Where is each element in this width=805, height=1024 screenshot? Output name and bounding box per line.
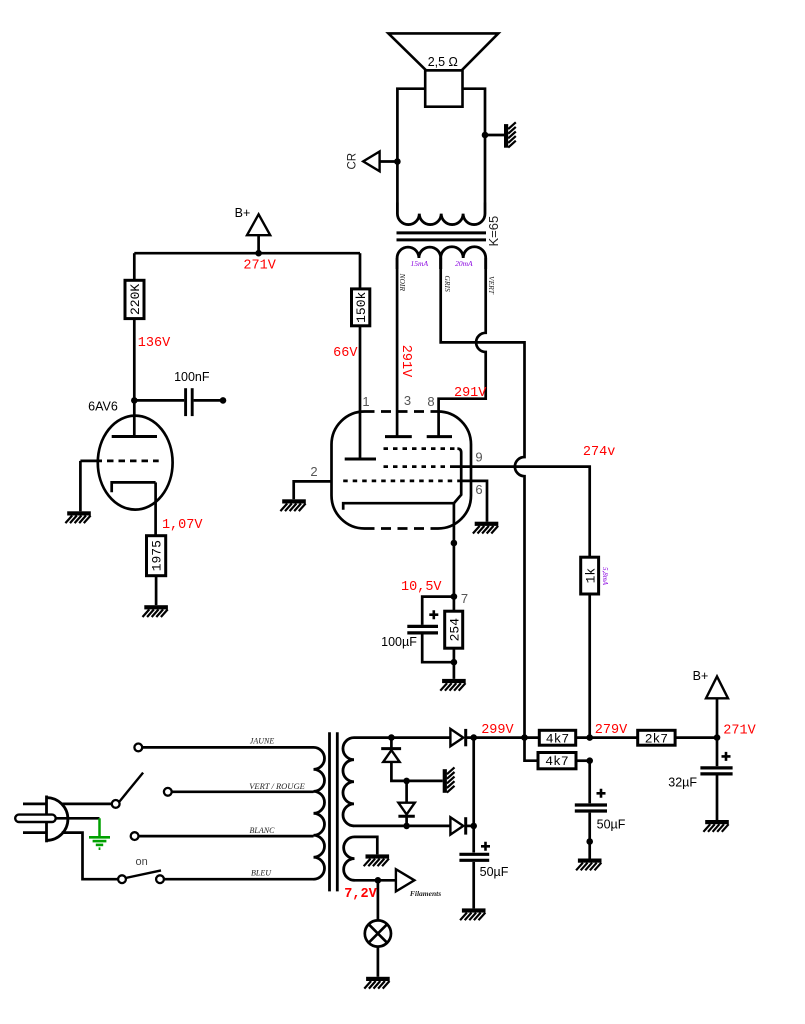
wire VERT to pin 8, hop over GRIS run (439, 258, 486, 437)
wire D3 to mid node (391, 762, 406, 781)
ground lamp (364, 977, 389, 989)
6AV6 grid (80, 460, 102, 463)
ground filament CT (364, 854, 389, 866)
svg-text:5,8mA: 5,8mA (601, 567, 609, 586)
diode D4 (clamp down) (405, 781, 408, 803)
svg-text:VERT / ROUGE: VERT / ROUGE (249, 781, 305, 791)
wire pin 2 to ground (294, 481, 332, 499)
svg-text:3: 3 (404, 393, 411, 408)
wire grid to ground (79, 461, 82, 511)
wire plug neutral down (62, 833, 118, 880)
capacitor C3 50uF (reservoir) (459, 854, 489, 860)
svg-text:291V: 291V (454, 386, 487, 401)
node C4 ground lead (586, 838, 593, 845)
wire to ground (453, 662, 456, 679)
grid row 3 (control grid) (343, 480, 458, 483)
wire pin 9 (screen) to 1k (453, 467, 590, 558)
svg-text:Filaments: Filaments (410, 889, 441, 898)
svg-text:1,07V: 1,07V (162, 518, 203, 533)
capacitor C2 100uF branch (422, 597, 454, 625)
wire 100nF output (194, 399, 223, 402)
wires R4 (453, 597, 456, 612)
grid row 1 (suppressor) (384, 447, 458, 450)
wire D1 out (466, 736, 540, 739)
node 271V B+ (714, 734, 721, 741)
ground 6AV6 cathode (143, 605, 168, 617)
transformer T1 core (328, 732, 331, 891)
wire mid node to chassis (407, 780, 443, 783)
transformer T1 HT secondary (343, 738, 354, 826)
ground pin 6 (473, 522, 498, 534)
node B+ rail (255, 250, 262, 257)
transformer T2 secondary winding (speaker side) (397, 203, 485, 225)
power flag B+ top (247, 214, 270, 235)
plus sign C4 (597, 789, 606, 798)
svg-text:K=65: K=65 (486, 216, 501, 247)
svg-text:8: 8 (427, 394, 434, 409)
wire D2 out (466, 825, 474, 828)
svg-text:6: 6 (475, 482, 482, 497)
svg-text:BLANC: BLANC (250, 826, 276, 835)
connector Filaments arrow (396, 869, 415, 891)
ground C3 (460, 908, 485, 920)
resistor R4 254 (445, 611, 463, 648)
resistor R2 150k (352, 289, 370, 326)
svg-text:1: 1 (362, 394, 369, 409)
svg-text:2: 2 (310, 464, 317, 479)
speaker LS1 (388, 33, 498, 106)
node GRIS join (521, 734, 528, 741)
wire C3 to ground (472, 862, 475, 909)
resistor R3 1975 (147, 536, 166, 576)
wire R7 left connector (525, 738, 539, 761)
wire to ground (485, 134, 504, 137)
node 299V (470, 734, 477, 741)
selector contact JAUNE (134, 744, 142, 752)
wire filament top to chassis (355, 837, 378, 855)
transformer T1 primary winding (314, 747, 325, 879)
node below tube (451, 540, 458, 547)
wire rectifier bus (472, 738, 475, 853)
node D3 top (388, 734, 395, 741)
wire BLEU (164, 878, 313, 881)
svg-text:291V: 291V (398, 345, 413, 378)
svg-text:100µF: 100µF (381, 635, 417, 649)
wire to 100nF (134, 399, 184, 402)
node D4 bottom (403, 823, 410, 830)
svg-text:2k7: 2k7 (645, 731, 668, 746)
svg-text:136V: 136V (138, 336, 171, 351)
wire R6 right (576, 736, 638, 739)
wire speaker left lead (397, 89, 425, 203)
wire 2k7 to B+ node (675, 736, 717, 739)
svg-text:4k7: 4k7 (545, 754, 568, 769)
wire rail to 220K (133, 253, 136, 280)
wire HT bottom (354, 825, 450, 828)
svg-text:1975: 1975 (150, 540, 165, 571)
node R7 right (586, 757, 593, 764)
svg-text:9: 9 (475, 450, 482, 465)
resistor R1 220K (125, 280, 144, 318)
wire HT top (354, 736, 450, 739)
wire 150k to pin 1 (359, 326, 362, 459)
wire BLANC (139, 835, 314, 838)
plus sign C2 (429, 610, 438, 619)
6AV6 plate bar (112, 435, 157, 438)
tube U2 output pentode envelope (332, 412, 365, 529)
resistor R8 2k7 (638, 730, 675, 746)
wire rail to 150k (359, 253, 362, 289)
selector contact BLANC (131, 832, 139, 840)
svg-text:JAUNE: JAUNE (250, 737, 275, 746)
node 100nF output (220, 397, 227, 404)
capacitor C1 100nF (186, 388, 193, 416)
node speaker right to ground (482, 132, 489, 139)
svg-text:271V: 271V (243, 258, 276, 273)
wire pin 6 to ground (458, 481, 487, 522)
plus sign C3 (481, 842, 490, 851)
suppressor tie to cathode (454, 449, 461, 504)
switch S2 on/off (118, 875, 126, 883)
svg-text:CR: CR (347, 153, 359, 170)
wire R3 to ground (155, 576, 158, 606)
wire earth pin (56, 817, 100, 820)
svg-text:7,2V: 7,2V (344, 887, 377, 902)
mains plug P1 (15, 796, 68, 843)
power flag B+ bottom (706, 676, 728, 698)
capacitor C5 32uF (716, 738, 719, 767)
svg-text:10,5V: 10,5V (401, 580, 442, 595)
wire lamp to ground (377, 947, 380, 977)
grid row 2 (screen) (384, 465, 454, 468)
ground 6AV6 grid (65, 511, 90, 523)
svg-text:20mA: 20mA (455, 259, 473, 268)
transformer T2 core (397, 231, 487, 234)
wire 1k down to 279V node (588, 594, 591, 738)
wire CR tap (380, 160, 398, 163)
switch S2 lever (126, 870, 161, 878)
svg-text:32µF: 32µF (668, 776, 697, 790)
diode D1 rectifier top (450, 729, 465, 746)
node 7 (451, 593, 458, 600)
node clamp mid (403, 778, 410, 785)
svg-text:7: 7 (461, 591, 468, 606)
svg-text:271V: 271V (723, 724, 756, 739)
wire cathode to R3 (154, 482, 157, 535)
wire R7 right connector (576, 759, 590, 762)
diode D2 rectifier bottom (450, 817, 465, 834)
svg-text:NOIR: NOIR (398, 273, 407, 292)
svg-text:50µF: 50µF (480, 865, 509, 879)
svg-text:on: on (135, 856, 147, 868)
wire B+ rail (134, 252, 360, 255)
capacitor C4 50uF (588, 761, 591, 804)
ground cathode network (440, 679, 465, 691)
ground C5 (703, 820, 728, 832)
resistor R5 1k (581, 557, 599, 594)
svg-text:220K: 220K (128, 284, 143, 315)
svg-text:15mA: 15mA (411, 259, 429, 268)
wire NOIR to pin 3 (396, 258, 399, 437)
node 279V (586, 734, 593, 741)
connector CR arrow (363, 152, 379, 172)
node cathode network bottom (451, 659, 458, 666)
svg-text:100nF: 100nF (174, 370, 210, 384)
svg-text:B+: B+ (693, 669, 709, 683)
wire B+ drop (257, 235, 260, 253)
svg-text:299V: 299V (481, 723, 514, 738)
wire plug live to selector (62, 803, 112, 806)
svg-text:50µF: 50µF (597, 818, 626, 832)
earth ground symbol (green) (89, 818, 110, 848)
svg-text:B+: B+ (235, 206, 251, 220)
svg-text:VERT: VERT (487, 276, 496, 295)
wire GRIS center tap to supply, with hop (441, 258, 525, 738)
resistor R6 4k7 (539, 730, 575, 746)
cathode bar (343, 503, 454, 510)
6AV6 cathode (112, 482, 156, 492)
switch S1 selector pole (112, 800, 120, 808)
svg-text:GRIS: GRIS (443, 276, 452, 292)
selector contact VERT/ROUGE (164, 788, 172, 796)
svg-text:279V: 279V (595, 723, 628, 738)
svg-text:BLEU: BLEU (251, 869, 272, 878)
pin 8 bar (427, 435, 452, 438)
ground clamp mid (443, 767, 455, 792)
wire 220K to plate (133, 319, 136, 401)
svg-text:6AV6: 6AV6 (88, 400, 118, 414)
node plate 6AV6 (131, 397, 138, 404)
ground C4 (576, 859, 601, 871)
node D2 out (470, 823, 477, 830)
tube U1 6AV6 envelope (98, 416, 173, 510)
pin 3 bar (385, 435, 412, 438)
wire VERT/ROUGE (172, 790, 314, 793)
svg-text:2,5 Ω: 2,5 Ω (428, 55, 458, 69)
node filament (375, 877, 382, 884)
wire 6AV6 plate (133, 400, 136, 436)
svg-text:4k7: 4k7 (546, 731, 569, 746)
resistor R7 4k7 (538, 753, 576, 770)
transformer T2 primary section 1 (NOIR-GRIS) (397, 247, 441, 269)
pin 1 plate bar (345, 458, 376, 461)
ground pin 2 (280, 499, 305, 511)
svg-text:66V: 66V (333, 346, 358, 361)
transformer T1 filament secondary (344, 837, 355, 880)
plus sign C5 (722, 752, 731, 761)
svg-text:254: 254 (447, 618, 462, 642)
svg-text:150k: 150k (354, 292, 369, 323)
svg-text:274v: 274v (583, 445, 615, 460)
wire JAUNE (142, 746, 313, 749)
wire filament bottom (355, 879, 396, 882)
svg-text:1k: 1k (583, 568, 598, 584)
wire speaker right lead (463, 89, 486, 203)
ground speaker return (504, 122, 516, 147)
transformer T2 primary section 2 (GRIS-VERT) (441, 247, 486, 269)
wire cathode down (453, 503, 456, 596)
node CR tap (394, 158, 401, 165)
lamp pilot light (377, 880, 380, 920)
wire B+ flag (716, 698, 719, 737)
switch S1 lever (119, 773, 143, 802)
